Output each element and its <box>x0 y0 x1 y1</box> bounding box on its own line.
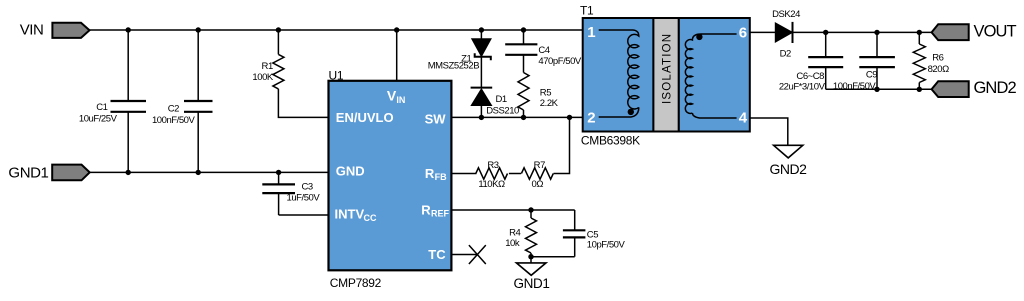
svg-text:CMB6398K: CMB6398K <box>581 133 640 147</box>
junction GND2 rail / C9 <box>874 87 879 92</box>
svg-text:C2: C2 <box>168 104 179 115</box>
svg-text:470pF/50V: 470pF/50V <box>538 56 582 67</box>
resistor R1 <box>252 30 283 89</box>
svg-text:GND2: GND2 <box>974 79 1017 97</box>
wire GND1 rail <box>90 171 329 173</box>
junction VOUT rail / C9 <box>874 30 879 35</box>
svg-text:VOUT: VOUT <box>974 22 1017 40</box>
junction VIN rail / C4 <box>521 27 526 32</box>
svg-text:R3: R3 <box>487 160 498 171</box>
svg-text:R5: R5 <box>540 88 551 99</box>
svg-text:6: 6 <box>739 24 747 41</box>
resistor R5 <box>518 73 559 118</box>
wire R4 bottom to C5 bottom <box>531 253 575 257</box>
ground GND1 symbol <box>514 263 550 291</box>
svg-text:DSS210: DSS210 <box>486 106 519 117</box>
capacitor C1 <box>111 30 147 172</box>
wire pin4 to GND2 <box>750 118 788 145</box>
svg-text:22uF*3/10V: 22uF*3/10V <box>779 82 826 93</box>
wire EN/UVLO net <box>278 89 328 118</box>
ground GND2 symbol <box>770 145 808 177</box>
capacitor C9 <box>859 32 895 89</box>
svg-text:C4: C4 <box>538 45 549 56</box>
svg-text:SW: SW <box>425 111 447 126</box>
svg-text:CC: CC <box>364 213 377 223</box>
junction VIN rail / U1 VIN pin <box>394 27 399 32</box>
svg-text:C3: C3 <box>302 181 313 192</box>
svg-text:GND1: GND1 <box>514 276 550 291</box>
wire VIN pin stub <box>396 30 398 81</box>
svg-text:820Ω: 820Ω <box>928 64 950 75</box>
junction R4 bottom / C5 / GND1 <box>528 254 533 259</box>
svg-text:GND1: GND1 <box>8 165 48 182</box>
primary winding bottom <box>599 107 639 117</box>
isolation barrier <box>653 18 678 132</box>
wire output bottom rail <box>826 88 932 90</box>
svg-text:10k: 10k <box>505 238 520 249</box>
junction GND1 rail / C1 <box>126 170 131 175</box>
svg-text:C1: C1 <box>96 102 107 113</box>
svg-text:100nF/50V: 100nF/50V <box>152 115 196 126</box>
resistor R3 <box>476 160 508 190</box>
svg-text:TC: TC <box>428 247 446 262</box>
phase dot secondary <box>696 34 702 40</box>
svg-text:2: 2 <box>587 109 595 126</box>
svg-text:100K: 100K <box>252 72 274 83</box>
junction SW net / R5 <box>521 115 526 120</box>
svg-text:10pF/50V: 10pF/50V <box>587 239 626 250</box>
svg-text:4: 4 <box>739 110 748 127</box>
svg-text:100nF/50V: 100nF/50V <box>833 81 877 92</box>
svg-text:1uF/50V: 1uF/50V <box>287 193 321 204</box>
terminal GND1 <box>8 165 89 182</box>
junction VOUT rail / C6-C8 <box>823 30 828 35</box>
junction RREF net / R4 top <box>528 207 533 212</box>
svg-text:CMP7892: CMP7892 <box>330 276 382 290</box>
junction SW net / D1 <box>479 115 484 120</box>
wire SW net <box>451 116 582 118</box>
svg-text:R: R <box>425 166 435 181</box>
phase dot primary <box>628 109 634 115</box>
junction GND1 rail / C3 <box>276 170 281 175</box>
resistor R7 <box>521 160 553 190</box>
wire VIN rail <box>90 29 583 31</box>
svg-text:10uF/25V: 10uF/25V <box>79 113 118 124</box>
terminal GND2 <box>932 79 1017 97</box>
transformer T1 secondary box <box>679 18 750 132</box>
svg-text:2.2K: 2.2K <box>540 98 559 109</box>
resistor R6 <box>913 32 949 89</box>
svg-text:EN/UVLO: EN/UVLO <box>336 110 394 125</box>
svg-text:R1: R1 <box>262 61 273 72</box>
svg-text:GND: GND <box>336 164 365 179</box>
svg-text:110KΩ: 110KΩ <box>478 179 505 190</box>
junction SW net / R7 branch <box>567 115 572 120</box>
capacitor C3 <box>262 172 295 215</box>
svg-text:R7: R7 <box>534 160 545 171</box>
no-connect X on TC <box>469 245 486 264</box>
svg-text:IN: IN <box>396 95 405 105</box>
svg-text:R6: R6 <box>932 53 943 64</box>
transformer T1 CMB6398K primary box <box>580 4 653 148</box>
junction VOUT rail / R6 <box>917 30 922 35</box>
primary winding <box>599 30 639 109</box>
junction VIN rail / R1 <box>276 27 281 32</box>
svg-text:MMSZ5252B: MMSZ5252B <box>428 60 480 71</box>
svg-text:C9: C9 <box>866 70 877 81</box>
zener Z1 <box>428 30 491 88</box>
junction VIN rail / C2 <box>196 27 201 32</box>
svg-text:D2: D2 <box>780 49 791 60</box>
svg-text:V: V <box>387 87 397 103</box>
junction GND2 rail / R6 <box>917 87 922 92</box>
svg-text:1: 1 <box>587 24 595 41</box>
capacitor C6-C8 <box>808 32 843 89</box>
svg-text:C6~C8: C6~C8 <box>796 71 824 82</box>
svg-text:0Ω: 0Ω <box>532 179 544 190</box>
junction GND1 rail / C2 <box>196 170 201 175</box>
wire TC stub <box>451 254 477 256</box>
svg-text:VIN: VIN <box>20 22 44 39</box>
diode D1 <box>471 88 519 118</box>
wire RREF net <box>451 209 574 211</box>
junction VIN rail / C1 <box>126 27 131 32</box>
svg-text:ISOLATION: ISOLATION <box>662 33 674 104</box>
svg-text:D1: D1 <box>496 94 507 105</box>
capacitor C4 <box>505 30 537 73</box>
svg-text:DSK24: DSK24 <box>772 9 800 20</box>
diode D2 <box>772 9 800 60</box>
svg-text:T1: T1 <box>580 4 594 18</box>
svg-text:FB: FB <box>435 172 447 182</box>
wire RFB net <box>451 173 476 175</box>
terminal VOUT <box>932 22 1017 40</box>
terminal VIN <box>20 22 90 39</box>
secondary winding <box>685 34 736 113</box>
wire secondary top (pin6 to D2 to VOUT) <box>750 31 776 33</box>
resistor R4 <box>505 210 536 253</box>
op-amp U1 CMP7892 <box>329 69 452 290</box>
capacitor C2 <box>184 30 213 172</box>
svg-text:U1: U1 <box>329 69 344 83</box>
svg-text:GND2: GND2 <box>770 161 808 177</box>
junction VIN rail / Z1 <box>479 27 484 32</box>
capacitor C5 <box>563 210 586 257</box>
svg-text:REF: REF <box>431 209 450 219</box>
svg-text:R4: R4 <box>509 227 520 238</box>
svg-text:R: R <box>421 202 431 217</box>
svg-text:INTV: INTV <box>335 207 365 222</box>
